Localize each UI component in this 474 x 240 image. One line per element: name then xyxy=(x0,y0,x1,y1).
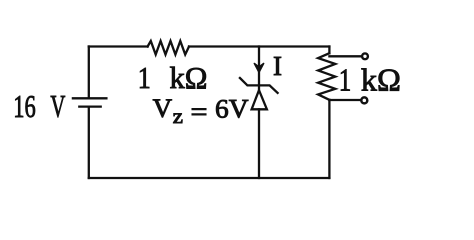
wire top-right segment xyxy=(189,45,329,47)
svg-text:1: 1 xyxy=(138,60,151,95)
wire bottom xyxy=(89,177,330,179)
svg-text:kΩ: kΩ xyxy=(170,60,208,95)
zener diode D1 anode triangle xyxy=(252,90,267,109)
wire right vertical top jog xyxy=(328,47,330,54)
wire left vertical lower xyxy=(88,107,90,178)
svg-text:1: 1 xyxy=(339,62,352,98)
svg-text:V: V xyxy=(50,88,65,124)
wire left vertical upper xyxy=(88,47,90,99)
battery V1 short plate xyxy=(79,105,100,107)
wire terminal stub bottom xyxy=(329,99,360,101)
wire top-left segment xyxy=(89,45,148,47)
svg-text:6V: 6V xyxy=(215,95,249,124)
wire right vertical lower xyxy=(328,100,330,178)
svg-text:16: 16 xyxy=(13,88,36,124)
svg-text:z: z xyxy=(173,107,184,128)
wire middle branch upper xyxy=(258,47,260,91)
svg-text:kΩ: kΩ xyxy=(361,62,401,98)
zener diode D1 cathode bar xyxy=(240,78,278,93)
resistor R1 1k horizontal zigzag xyxy=(148,41,189,55)
current arrow I head xyxy=(254,64,263,73)
terminal circle top xyxy=(362,53,368,59)
wire middle branch lower xyxy=(258,109,260,178)
battery V1 long plate xyxy=(73,97,107,99)
svg-text:I: I xyxy=(273,51,282,81)
wire terminal stub top xyxy=(329,55,361,57)
terminal circle bottom xyxy=(361,97,367,103)
resistor R2 1k vertical zigzag xyxy=(318,53,335,100)
svg-text:=: = xyxy=(191,97,208,126)
svg-text:V: V xyxy=(153,94,173,123)
